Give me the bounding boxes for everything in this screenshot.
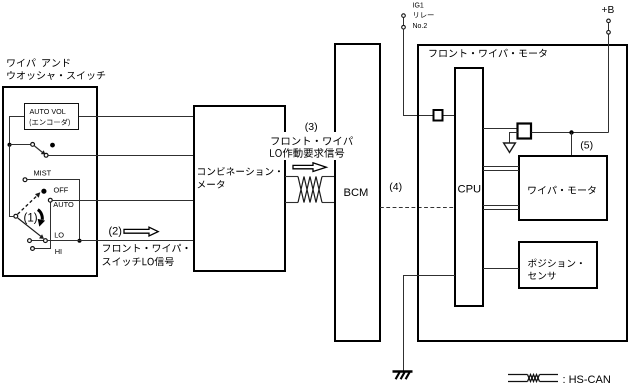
lever arm to LO contact	[18, 218, 41, 236]
chassis ground symbol	[393, 372, 413, 380]
label (3) front wiper LO request signal	[267, 121, 356, 160]
svg-text:CPU: CPU	[458, 184, 482, 196]
dashed HS-CAN line BCM to CPU	[380, 207, 455, 209]
wire: volume switch output to combination meter	[48, 155, 194, 157]
dashed lever to OFF position	[18, 196, 37, 214]
CPU box U4	[455, 68, 483, 306]
svg-text:MIST: MIST	[34, 169, 52, 178]
svg-text:IG1: IG1	[413, 3, 424, 10]
svg-text:(2): (2)	[109, 226, 122, 238]
wire: CPU to chassis ground	[404, 276, 456, 372]
AUTO contact	[48, 198, 52, 202]
volume switch closed-position dot	[50, 143, 55, 148]
motor drive bus wires	[483, 167, 519, 210]
wire: MIST contact to LO output line	[27, 180, 79, 241]
wire: junction down to wiper motor	[571, 133, 573, 157]
node: switch common junction	[8, 143, 12, 147]
svg-text:(3): (3)	[305, 121, 318, 133]
svg-text:AUTO: AUTO	[53, 200, 74, 209]
svg-text:LO: LO	[54, 231, 64, 240]
AUTO VOL encoder block	[25, 104, 79, 130]
wire: AUTO VOL output to combination meter	[79, 116, 194, 118]
wire: connector to CPU	[444, 115, 456, 117]
label: wiper and washer switch	[7, 58, 105, 80]
HS-CAN twisted pair: combination meter to BCM	[285, 177, 335, 203]
MIST contact	[23, 178, 27, 182]
svg-text:BCM: BCM	[344, 187, 369, 199]
wire: +B down to motor feed	[608, 35, 610, 133]
position sensor box B1	[519, 242, 597, 288]
wire: AUTO output to combination meter	[53, 200, 194, 202]
label (2) and front wiper switch LO signal	[103, 226, 188, 267]
motor relay block K1	[518, 124, 532, 139]
wire: CPU to position sensor	[483, 268, 519, 270]
node: MIST/LO junction	[78, 239, 82, 243]
IG1 relay No.2 terminal	[402, 3, 434, 30]
wire: CPU to motor relay	[483, 128, 517, 130]
wire: junction down to rotary switch pivot	[10, 145, 14, 217]
wiper and washer switch box SW1	[3, 87, 97, 276]
+B terminal	[602, 5, 615, 34]
volume switch movable contact	[31, 143, 48, 158]
front wiper motor assembly box	[418, 45, 627, 341]
rotary switch pivot contact	[14, 214, 18, 218]
svg-text:(1): (1)	[24, 212, 38, 224]
OFF position dot	[41, 189, 46, 194]
wire: LO output to combination meter	[48, 240, 194, 242]
wiper motor box M1	[519, 156, 607, 220]
wire: IG1 down and into motor assembly	[404, 29, 434, 115]
svg-text:: HS-CAN: : HS-CAN	[563, 374, 611, 386]
wire: AUTO contact down to HI contact	[35, 203, 51, 249]
wire: LO pair link	[32, 240, 43, 242]
legend: HS-CAN twisted pair symbol	[508, 374, 611, 386]
svg-text:(5): (5)	[580, 140, 593, 152]
node: motor feed junction	[569, 130, 573, 134]
block arrow (3)	[293, 163, 326, 172]
LO contact	[44, 239, 48, 243]
HI contact	[31, 247, 35, 251]
svg-text:AUTO VOL: AUTO VOL	[30, 107, 66, 116]
rotation arrow (1)	[38, 210, 45, 227]
connector block on IG1 feed	[434, 110, 443, 121]
wire: relay to +B feed	[532, 132, 609, 134]
LO pair left contact	[28, 239, 32, 243]
BCM box U3	[335, 44, 380, 341]
wire: junction to volume switch contact	[10, 144, 31, 146]
block arrow (2)	[124, 227, 158, 236]
wire: relay branch to ground arrow	[510, 133, 518, 143]
combination meter box U2	[194, 106, 285, 271]
svg-text:OFF: OFF	[54, 185, 69, 194]
svg-text:No.2: No.2	[413, 23, 428, 30]
svg-text:+B: +B	[602, 5, 615, 16]
svg-text:(4): (4)	[389, 181, 402, 193]
ground arrow (open triangle)	[504, 143, 516, 152]
wire: AUTO VOL to left junction	[10, 117, 25, 145]
svg-text:HI: HI	[55, 247, 62, 256]
